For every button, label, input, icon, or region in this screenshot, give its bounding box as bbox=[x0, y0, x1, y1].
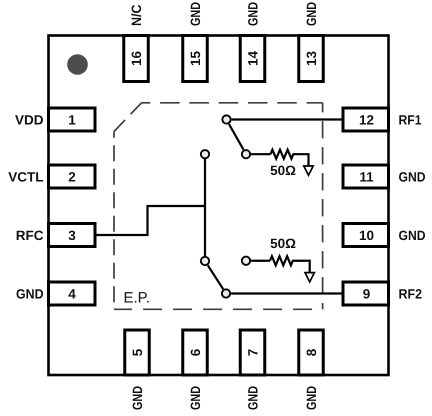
svg-text:10: 10 bbox=[359, 228, 374, 243]
svg-text:GND: GND bbox=[399, 170, 426, 185]
wire RFC from pin 3 to switch trunk bbox=[95, 206, 205, 235]
svg-text:13: 13 bbox=[304, 51, 319, 67]
pin 9 box bbox=[343, 282, 389, 305]
svg-text:14: 14 bbox=[246, 51, 261, 67]
svg-text:GND: GND bbox=[246, 2, 261, 26]
pin 8 box bbox=[299, 330, 324, 375]
pin 5 box bbox=[125, 330, 150, 375]
svg-text:VDD: VDD bbox=[15, 113, 44, 128]
svg-text:5: 5 bbox=[130, 348, 145, 356]
svg-text:11: 11 bbox=[359, 170, 374, 185]
node SW2 throw to RF2 bbox=[222, 289, 230, 297]
exposed pad outline E.P. — left edge (dashed) bbox=[113, 132, 115, 310]
wire termination node to resistor R2 bbox=[251, 260, 270, 262]
svg-text:E.P.: E.P. bbox=[124, 289, 150, 306]
svg-text:GND: GND bbox=[188, 2, 203, 26]
svg-text:4: 4 bbox=[68, 287, 76, 302]
svg-text:12: 12 bbox=[359, 113, 374, 128]
pin 16 box bbox=[124, 36, 149, 82]
svg-text:15: 15 bbox=[188, 51, 203, 67]
wire trunk between switch poles bbox=[204, 159, 206, 256]
ground (RF1 termination) bbox=[304, 166, 313, 175]
svg-text:RF1: RF1 bbox=[399, 113, 422, 128]
svg-text:GND: GND bbox=[16, 287, 44, 302]
wire RF1 node to pin 12 bbox=[232, 118, 344, 120]
switch blade SW2 (connects pole to RF2 node) bbox=[208, 265, 223, 289]
svg-text:50Ω: 50Ω bbox=[270, 163, 296, 178]
wire RF2 node to pin 9 bbox=[231, 292, 344, 294]
svg-text:GND: GND bbox=[399, 228, 426, 243]
pin 15 box bbox=[183, 36, 208, 82]
svg-text:VCTL: VCTL bbox=[8, 170, 43, 185]
svg-text:GND: GND bbox=[304, 386, 319, 410]
pin 10 box bbox=[343, 224, 389, 247]
exposed pad outline E.P. — right edge (dashed) bbox=[322, 103, 324, 309]
node SW2 throw to 50 ohm termination bbox=[242, 257, 250, 265]
svg-text:RFC: RFC bbox=[16, 228, 44, 243]
node SW1 throw to 50 ohm termination bbox=[242, 150, 250, 158]
wire termination node to resistor R1 bbox=[251, 153, 270, 155]
resistor R1 50 ohm (RF1 termination) bbox=[271, 150, 309, 166]
pin 7 box bbox=[240, 330, 265, 375]
svg-text:N/C: N/C bbox=[129, 4, 144, 26]
node SW1 throw to RF1 bbox=[222, 115, 230, 123]
pin 12 box bbox=[343, 108, 389, 131]
pin 6 box bbox=[183, 330, 208, 375]
pin 11 box bbox=[343, 165, 389, 188]
exposed pad outline E.P. — chamfer (dashed) bbox=[114, 103, 142, 132]
switch blade SW1 (connects RF1 node to termination node) bbox=[229, 124, 244, 150]
svg-text:6: 6 bbox=[188, 348, 203, 356]
svg-text:3: 3 bbox=[68, 228, 76, 243]
svg-text:1: 1 bbox=[68, 113, 76, 128]
exposed pad outline E.P. — top edge (dashed) bbox=[142, 102, 323, 104]
ground (RF2 termination) bbox=[305, 273, 314, 282]
package outline U1 (QFN-16 body) bbox=[49, 36, 389, 376]
svg-text:GND: GND bbox=[130, 386, 145, 410]
pin 3 box bbox=[49, 224, 96, 247]
svg-text:50Ω: 50Ω bbox=[270, 236, 296, 251]
exposed pad outline E.P. — bottom edge (dashed) bbox=[114, 308, 323, 310]
svg-text:GND: GND bbox=[188, 386, 203, 410]
pin 14 box bbox=[240, 36, 265, 82]
node SW2 pole (bottom switch, RFC side) bbox=[201, 257, 209, 265]
pin 2 box bbox=[49, 165, 96, 188]
svg-text:8: 8 bbox=[304, 348, 319, 356]
svg-text:16: 16 bbox=[129, 51, 144, 67]
svg-text:RF2: RF2 bbox=[399, 287, 423, 302]
svg-text:2: 2 bbox=[68, 170, 76, 185]
pin 13 box bbox=[299, 36, 324, 82]
node SW1 pole (top switch, RFC side) bbox=[201, 150, 209, 158]
pin-1 indicator dot bbox=[67, 54, 88, 75]
svg-text:GND: GND bbox=[246, 386, 261, 410]
svg-text:9: 9 bbox=[363, 287, 371, 302]
resistor R2 50 ohm (RF2 termination) bbox=[270, 256, 310, 272]
svg-text:7: 7 bbox=[246, 349, 261, 357]
pin 4 box bbox=[49, 282, 96, 305]
svg-text:GND: GND bbox=[304, 2, 319, 26]
pin 1 box bbox=[49, 108, 96, 131]
